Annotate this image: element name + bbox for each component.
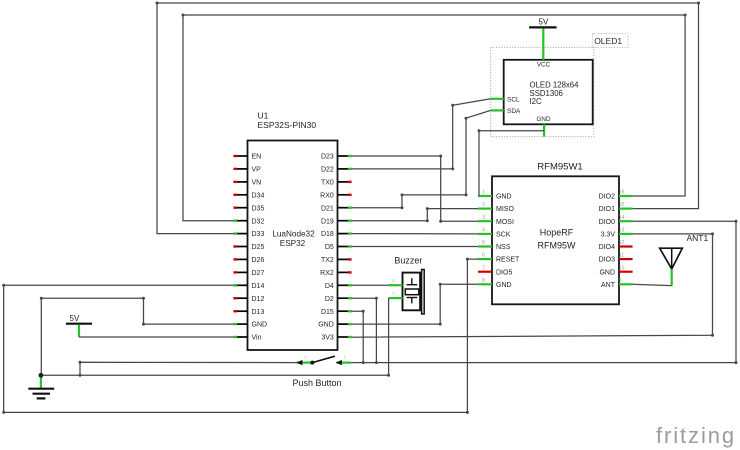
wire D22 to SCL	[352, 99, 491, 169]
svg-text:RX2: RX2	[320, 270, 334, 277]
OLED1 dashed module boundary	[491, 47, 594, 136]
pin RX0 (U1 right 4)	[320, 192, 351, 199]
wire D32 to DIO2 (outer loop 2)	[183, 15, 685, 221]
svg-text:D14: D14	[252, 283, 265, 290]
pin D12 (U1 left 12)	[233, 296, 264, 303]
svg-text:6: 6	[482, 253, 485, 259]
svg-text:TX2: TX2	[321, 257, 334, 264]
pin D2 (U1 right 12)	[325, 296, 352, 303]
svg-text:D22: D22	[321, 167, 334, 174]
U1 body	[248, 141, 338, 351]
svg-text:OLED1: OLED1	[594, 36, 622, 46]
junction node at ground	[39, 373, 44, 378]
svg-text:5V: 5V	[539, 18, 549, 27]
power 5V (top, OLED supply)	[529, 18, 557, 28]
RFM95W1 part name	[538, 228, 577, 251]
svg-text:D27: D27	[252, 270, 265, 277]
pin D26 (U1 left 9)	[233, 257, 264, 264]
svg-text:D26: D26	[252, 257, 265, 264]
pin 1 GND (RFM95W1 left)	[478, 190, 512, 201]
pin SDA (OLED1 left)	[491, 108, 521, 115]
5V pin to OLED VCC	[542, 28, 544, 48]
pin 4 SCK (RFM95W1 left)	[478, 228, 511, 239]
svg-text:3.3V: 3.3V	[601, 232, 616, 239]
svg-text:D23: D23	[321, 154, 334, 161]
svg-text:MISO: MISO	[496, 206, 514, 213]
svg-text:DIO1: DIO1	[599, 206, 615, 213]
pin D35 (U1 left 5)	[233, 205, 264, 212]
pin 16 DIO2 (RFM95W1 right)	[599, 190, 633, 201]
RFM95W1 reference label	[537, 161, 582, 172]
wire D23 to MOSI	[352, 156, 479, 221]
buzzer body	[403, 270, 425, 314]
svg-text:LuaNode32: LuaNode32	[272, 229, 315, 238]
ANT1 symbol	[660, 248, 683, 269]
svg-text:ESP32S-PIN30: ESP32S-PIN30	[258, 120, 317, 130]
svg-text:RFM95W1: RFM95W1	[537, 161, 582, 172]
svg-text:GND: GND	[599, 269, 615, 276]
pin D15 (U1 right 13)	[321, 309, 352, 316]
svg-text:Vin: Vin	[252, 335, 262, 342]
wire buzzer pin2 to ground rail	[388, 298, 390, 375]
RFM95W1 body	[492, 176, 619, 304]
svg-text:GND: GND	[496, 282, 512, 289]
pin 12 DIO4 (RFM95W1 right)	[599, 240, 633, 251]
svg-text:4: 4	[482, 228, 485, 234]
svg-text:7: 7	[482, 265, 485, 271]
svg-text:10: 10	[619, 265, 625, 271]
IC U1 ESP32S-PIN30 LuaNode32 ESP32	[233, 111, 351, 351]
svg-text:1: 1	[482, 190, 485, 196]
svg-text:GND: GND	[252, 322, 268, 329]
fritzing logo	[656, 423, 736, 448]
svg-text:ANT: ANT	[601, 282, 616, 289]
pin D33 (U1 left 7)	[233, 231, 264, 238]
svg-text:11: 11	[619, 253, 624, 259]
svg-text:D15: D15	[321, 309, 334, 316]
svg-text:Buzzer: Buzzer	[394, 256, 422, 266]
antenna ANT1	[660, 233, 709, 286]
svg-text:SCK: SCK	[496, 232, 511, 239]
pin 7 DIO5 (RFM95W1 left)	[478, 265, 512, 276]
pin 14 DIO0 (RFM95W1 right)	[599, 215, 633, 226]
pin 3V3 (U1 right 15)	[321, 335, 351, 342]
wire D33 to DIO1 (outer loop 1)	[157, 3, 699, 234]
svg-text:DIO2: DIO2	[599, 194, 615, 201]
svg-text:DIO0: DIO0	[599, 219, 615, 226]
wire button pin2 to DIO0	[351, 221, 736, 362]
svg-text:TX0: TX0	[321, 180, 334, 187]
pin 11 DIO3 (RFM95W1 right)	[599, 253, 633, 264]
pin 3 MOSI (RFM95W1 left)	[478, 215, 514, 226]
wire ANT pin to antenna	[633, 284, 672, 285]
push button pin 2	[336, 354, 351, 365]
svg-text:D4: D4	[325, 283, 334, 290]
svg-text:D21: D21	[321, 205, 334, 212]
svg-text:D25: D25	[252, 244, 265, 251]
svg-text:3: 3	[482, 215, 485, 221]
pin 10 GND (RFM95W1 right)	[599, 265, 632, 276]
buzzer label	[394, 256, 422, 266]
svg-text:DIO3: DIO3	[599, 257, 615, 264]
OLED1 label box	[593, 34, 628, 48]
svg-text:16: 16	[619, 190, 625, 196]
pin D4 (U1 right 11)	[325, 283, 352, 290]
svg-text:14: 14	[619, 215, 625, 221]
buzzer pin 2	[389, 291, 403, 298]
pin EN (U1 left 1)	[233, 154, 261, 161]
svg-text:VN: VN	[252, 180, 262, 187]
wire ESP GND to RFM GND pin8	[352, 284, 479, 324]
svg-text:HopeRF: HopeRF	[540, 228, 574, 238]
module OLED1 (OLED 128x64 SSD1306 I2C)	[491, 34, 628, 137]
wire 5V to Vin	[79, 336, 234, 338]
svg-text:D18: D18	[321, 231, 334, 238]
svg-text:D35: D35	[252, 205, 265, 212]
pin D5 (U1 right 8)	[325, 244, 352, 251]
svg-text:RESET: RESET	[496, 257, 520, 264]
wire ground rail	[41, 374, 389, 376]
svg-text:D12: D12	[252, 296, 265, 303]
pin GND (OLED1 bottom)	[537, 116, 551, 137]
svg-text:GND: GND	[537, 116, 551, 123]
wire D2 to button net	[352, 298, 377, 362]
power 5V (bottom, Vin supply)	[66, 314, 92, 324]
pin D22 (U1 right 2)	[321, 167, 352, 174]
svg-text:13: 13	[619, 228, 625, 234]
svg-text:RX0: RX0	[320, 192, 334, 199]
pin D23 (U1 right 1)	[321, 154, 352, 161]
svg-text:D32: D32	[252, 218, 265, 225]
wire D15 to button net	[352, 311, 364, 362]
OLED1 part name	[530, 81, 580, 107]
svg-text:SCL: SCL	[507, 96, 520, 103]
svg-text:12: 12	[619, 240, 625, 246]
svg-text:SDA: SDA	[507, 108, 521, 115]
svg-text:Push Button: Push Button	[293, 378, 342, 388]
svg-text:5: 5	[482, 240, 485, 246]
wire D19 to MISO	[352, 209, 479, 221]
svg-text:I2C: I2C	[530, 97, 543, 106]
pin TX2 (U1 right 9)	[321, 257, 352, 264]
pin 2 MISO (RFM95W1 left)	[478, 202, 514, 213]
buzzer pin 1	[389, 278, 403, 285]
wire D18 to SCK	[352, 233, 479, 235]
wire D14 to RESET (bottom loop)	[4, 259, 478, 412]
U1 reference label	[258, 111, 317, 130]
pin D21 (U1 right 5)	[321, 205, 352, 212]
pin GND (U1 left 14)	[233, 322, 267, 329]
svg-text:2: 2	[482, 202, 485, 208]
pin RX2 (U1 right 10)	[320, 270, 351, 277]
ANT1 label	[687, 233, 709, 243]
pin VP (U1 left 2)	[233, 167, 261, 174]
svg-text:5V: 5V	[70, 314, 80, 323]
svg-text:EN: EN	[252, 154, 262, 161]
pin D25 (U1 left 8)	[233, 244, 264, 251]
pin D13 (U1 left 13)	[233, 309, 264, 316]
wire D4 to buzzer pin1	[352, 284, 389, 286]
svg-text:15: 15	[619, 202, 625, 208]
pin D14 (U1 left 11)	[233, 283, 264, 290]
wire button pin1 to ground	[80, 362, 297, 375]
push button pin 1	[296, 354, 312, 365]
U1 part name	[272, 229, 315, 248]
pin D32 (U1 left 6)	[233, 218, 264, 225]
push button label	[293, 378, 342, 388]
svg-text:NSS: NSS	[496, 244, 511, 251]
svg-text:D5: D5	[325, 244, 334, 251]
push button switch	[293, 354, 351, 388]
svg-text:9: 9	[619, 278, 622, 284]
svg-text:D2: D2	[325, 296, 334, 303]
svg-text:VCC: VCC	[537, 62, 551, 69]
pin Vin (U1 left 15)	[233, 335, 261, 342]
pin D18 (U1 right 7)	[321, 231, 352, 238]
wire D5 to NSS	[352, 246, 479, 248]
pin VCC (OLED1 top)	[537, 48, 551, 69]
pin 8 GND (RFM95W1 left)	[478, 278, 512, 289]
wire 3V3 to RFM 3.3V	[352, 234, 713, 337]
pin D19 (U1 right 6)	[321, 218, 352, 225]
pin 15 DIO1 (RFM95W1 right)	[599, 202, 633, 213]
wire ESP GND to ground (staircase)	[41, 298, 233, 375]
svg-text:D33: D33	[252, 231, 265, 238]
svg-text:D13: D13	[252, 309, 265, 316]
ANT1 pin	[671, 269, 673, 286]
pin 6 RESET (RFM95W1 left)	[478, 253, 520, 264]
svg-text:MOSI: MOSI	[496, 219, 514, 226]
OLED1 body	[504, 60, 593, 125]
svg-text:fritzing: fritzing	[656, 423, 736, 448]
svg-text:DIO5: DIO5	[496, 269, 512, 276]
IC RFM95W1 HopeRF RFM95W	[478, 161, 633, 304]
svg-text:DIO4: DIO4	[599, 244, 615, 251]
wire D21 to SDA	[352, 110, 491, 207]
svg-text:D19: D19	[321, 218, 334, 225]
svg-text:GND: GND	[496, 194, 512, 201]
ground symbol	[28, 375, 54, 398]
pin D27 (U1 left 10)	[233, 270, 264, 277]
5V pin to Vin wire	[78, 325, 80, 337]
pin TX0 (U1 right 3)	[321, 180, 352, 187]
pin VN (U1 left 3)	[233, 180, 261, 187]
pin D34 (U1 left 4)	[233, 192, 264, 199]
buzzer (piezo)	[389, 256, 425, 314]
svg-text:VP: VP	[252, 167, 262, 174]
pin 13 3.3V (RFM95W1 right)	[601, 228, 633, 239]
svg-text:ESP32: ESP32	[280, 239, 306, 248]
pin 9 ANT (RFM95W1 right)	[601, 278, 633, 289]
svg-text:D34: D34	[252, 192, 265, 199]
svg-text:8: 8	[482, 278, 485, 284]
pin 5 NSS (RFM95W1 left)	[478, 240, 511, 251]
wire OLED GND to RFM GND pin1	[479, 131, 544, 196]
pin SCL (OLED1 left)	[491, 96, 520, 103]
push button lever and pivot	[310, 356, 335, 364]
pin GND (U1 right 14)	[318, 322, 351, 329]
svg-text:RFM95W: RFM95W	[538, 240, 577, 250]
svg-text:GND: GND	[318, 322, 334, 329]
svg-text:3V3: 3V3	[321, 335, 334, 342]
